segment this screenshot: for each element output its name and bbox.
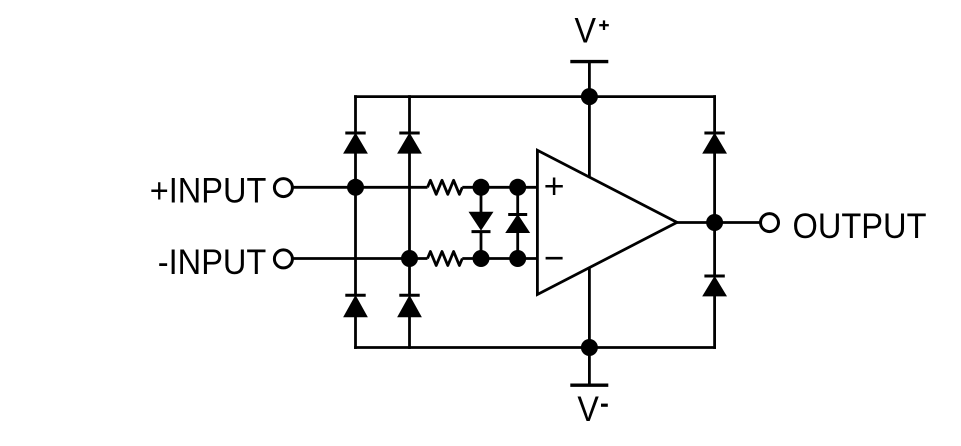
wire output clamp branch upper segment bbox=[713, 95, 716, 133]
diode left branch to V- (triangle) bbox=[345, 297, 367, 317]
op-amp inverting pin mark - bbox=[546, 257, 563, 260]
wire output clamp branch lower segment bbox=[713, 296, 716, 349]
node clamp right bottom junction bbox=[509, 250, 526, 267]
V+ superscript plus mark bbox=[599, 20, 609, 30]
diode differential clamp (down) bar bbox=[472, 230, 491, 233]
svg-text:OUTPUT: OUTPUT bbox=[793, 206, 927, 246]
wire output lead bbox=[677, 221, 760, 224]
wire clamp diode left column upper bbox=[480, 187, 483, 212]
wire -input to op-amp bbox=[462, 257, 537, 260]
wire second clamp branch upper segment bbox=[408, 95, 411, 133]
wire left clamp branch lower segment bbox=[354, 316, 357, 349]
diode differential clamp (up) triangle bbox=[507, 215, 529, 232]
node -input junction bbox=[401, 250, 418, 267]
wire clamp diode right column lower bbox=[516, 232, 519, 258]
svg-text:V: V bbox=[575, 11, 597, 51]
diode differential clamp (up) bar bbox=[508, 213, 527, 216]
diode output to V- (triangle) bbox=[704, 277, 726, 295]
wire +input lead bbox=[294, 186, 428, 189]
diode left branch to V- (cathode bar) bbox=[345, 294, 365, 297]
resistor +input series bbox=[428, 180, 463, 194]
terminal -INPUT bbox=[274, 250, 292, 268]
diode second branch to V- (triangle) bbox=[399, 297, 421, 317]
wire left clamp branch middle segment bbox=[354, 153, 357, 295]
diode output to V+ (triangle) bbox=[704, 134, 726, 153]
diode output to V+ (cathode bar) bbox=[704, 132, 724, 135]
wire V+ supply stub bbox=[588, 62, 591, 177]
diode second branch to V+ (triangle) bbox=[399, 134, 421, 153]
wire +input to op-amp bbox=[462, 186, 537, 189]
resistor -input series bbox=[428, 252, 463, 266]
diode second branch to V+ (cathode bar) bbox=[399, 132, 419, 135]
diode second branch to V- (cathode bar) bbox=[399, 294, 419, 297]
terminal OUTPUT bbox=[761, 214, 779, 232]
diode left branch to V+ (cathode bar) bbox=[345, 132, 365, 135]
diode differential clamp (down) triangle bbox=[470, 213, 492, 230]
op-amp A1 bbox=[537, 150, 677, 294]
svg-text:+INPUT: +INPUT bbox=[150, 171, 266, 211]
power symbol V- bar bbox=[570, 384, 608, 387]
wire -input lead bbox=[294, 257, 428, 260]
node +input junction bbox=[347, 179, 364, 196]
V- superscript minus mark bbox=[601, 404, 608, 407]
node clamp right top junction bbox=[509, 179, 526, 196]
wire top V+ rail bbox=[354, 95, 716, 98]
node V+ rail junction bbox=[581, 88, 598, 105]
wire left clamp branch upper segment bbox=[354, 95, 357, 133]
wire output clamp branch middle segment bbox=[713, 153, 716, 276]
diode output to V- (cathode bar) bbox=[704, 275, 724, 278]
node output junction bbox=[706, 214, 723, 231]
terminal +INPUT bbox=[274, 179, 292, 197]
wire bottom V- rail bbox=[354, 346, 716, 349]
wire second clamp branch middle segment bbox=[408, 153, 411, 295]
wire second clamp branch lower segment bbox=[408, 316, 411, 349]
power symbol V+ bar bbox=[570, 60, 608, 63]
svg-text:-INPUT: -INPUT bbox=[158, 242, 266, 282]
node V- rail junction bbox=[581, 339, 598, 356]
op-amp noninverting pin mark + bbox=[545, 178, 562, 196]
wire V- supply stub bbox=[588, 267, 591, 385]
wire clamp diode left column lower bbox=[480, 232, 483, 259]
diode left branch to V+ (triangle) bbox=[345, 134, 367, 153]
node clamp left top junction bbox=[473, 179, 490, 196]
node clamp left bottom junction bbox=[473, 250, 490, 267]
wire clamp diode right column upper bbox=[516, 187, 519, 214]
svg-text:V: V bbox=[577, 389, 599, 429]
